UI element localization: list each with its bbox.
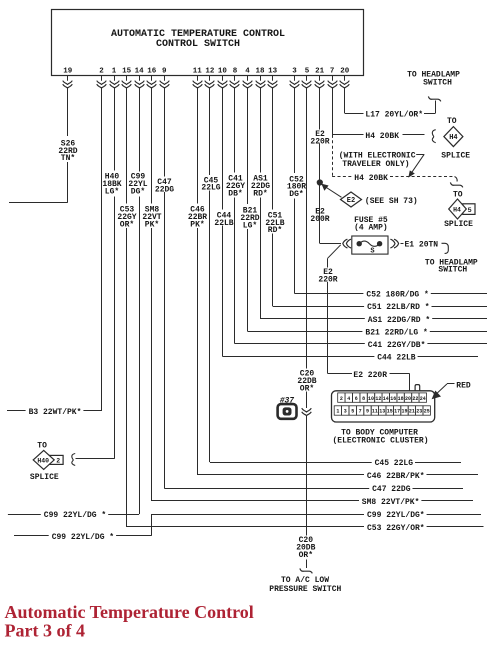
svg-text:AS1 22DG/RD *: AS1 22DG/RD * (368, 316, 430, 325)
svg-text:C41 22GY/DB*: C41 22GY/DB* (368, 341, 426, 350)
svg-text:C99 22YL/DG*: C99 22YL/DG* (367, 511, 425, 520)
svg-text:H4: H4 (453, 207, 461, 214)
svg-text:22: 22 (412, 396, 418, 402)
svg-text:7: 7 (330, 67, 335, 75)
svg-text:(4 AMP): (4 AMP) (354, 224, 388, 233)
svg-text:C99 22YL/DG *: C99 22YL/DG * (52, 533, 114, 542)
svg-text:C46 22BR/PK*: C46 22BR/PK* (367, 472, 425, 481)
svg-text:16: 16 (390, 396, 396, 402)
svg-text:LG*: LG* (243, 221, 257, 230)
svg-text:21: 21 (315, 67, 325, 75)
svg-text:C45 22LG: C45 22LG (375, 459, 414, 468)
svg-text:4: 4 (347, 396, 350, 402)
svg-text:C47 22DG: C47 22DG (372, 485, 411, 494)
svg-text:18: 18 (255, 67, 265, 75)
svg-text:1: 1 (112, 67, 117, 75)
svg-text:CONTROL SWITCH: CONTROL SWITCH (156, 39, 240, 50)
svg-text:C53 22GY/OR*: C53 22GY/OR* (367, 524, 425, 533)
svg-text:Part 3 of 4: Part 3 of 4 (5, 621, 85, 641)
svg-text:8: 8 (362, 396, 365, 402)
svg-text:5: 5 (351, 409, 354, 415)
svg-text:23: 23 (416, 409, 422, 415)
svg-text:19: 19 (401, 409, 407, 415)
svg-text:21: 21 (409, 409, 415, 415)
svg-text:RD*: RD* (268, 226, 282, 235)
svg-text:RD*: RD* (253, 189, 267, 198)
svg-text:PRESSURE SWITCH: PRESSURE SWITCH (269, 585, 341, 594)
svg-text:8: 8 (233, 67, 238, 75)
svg-text:24: 24 (420, 396, 426, 402)
svg-text:SPLICE: SPLICE (444, 220, 473, 229)
svg-text:Automatic Temperature Control: Automatic Temperature Control (5, 602, 254, 622)
svg-text:E1 20TN: E1 20TN (405, 240, 439, 249)
svg-text:13: 13 (268, 67, 278, 75)
svg-text:12: 12 (205, 67, 215, 75)
svg-text:17: 17 (394, 409, 400, 415)
svg-text:2: 2 (340, 396, 343, 402)
svg-text:11: 11 (193, 67, 203, 75)
svg-text:1: 1 (336, 409, 339, 415)
svg-text:9: 9 (366, 409, 369, 415)
svg-text:3: 3 (344, 409, 347, 415)
svg-text:13: 13 (379, 409, 385, 415)
svg-text:2: 2 (99, 67, 104, 75)
svg-text:12: 12 (375, 396, 381, 402)
svg-text:E2 220R: E2 220R (353, 371, 387, 380)
svg-text:(ELECTRONIC CLUSTER): (ELECTRONIC CLUSTER) (332, 437, 428, 446)
svg-text:H4 20BK: H4 20BK (354, 174, 388, 183)
svg-text:18: 18 (398, 396, 404, 402)
svg-text:(SEE SH 73): (SEE SH 73) (365, 197, 418, 206)
svg-text:SM8 22VT/PK*: SM8 22VT/PK* (362, 498, 420, 507)
svg-text:SPLICE: SPLICE (441, 151, 470, 160)
svg-text:C99 22YL/DG *: C99 22YL/DG * (44, 511, 106, 520)
svg-text:14: 14 (135, 67, 145, 75)
svg-text:3: 3 (292, 67, 297, 75)
svg-text:TO: TO (37, 441, 47, 450)
svg-text:OR*: OR* (299, 551, 313, 560)
svg-text:TN*: TN* (61, 154, 75, 163)
svg-text:9: 9 (162, 67, 167, 75)
svg-text:L17 20YL/OR*: L17 20YL/OR* (365, 111, 423, 120)
svg-text:11: 11 (372, 409, 378, 415)
svg-text:20: 20 (405, 396, 411, 402)
svg-text:H4 20BK: H4 20BK (365, 132, 399, 141)
svg-text:220R: 220R (318, 275, 337, 284)
svg-text:7: 7 (359, 409, 362, 415)
svg-text:H4: H4 (449, 134, 457, 142)
svg-text:TO A/C LOW: TO A/C LOW (281, 576, 329, 585)
svg-text:220R: 220R (310, 137, 329, 146)
svg-text:22LB: 22LB (214, 219, 233, 228)
svg-text:4: 4 (245, 67, 250, 75)
svg-text:C51 22LB/RD *: C51 22LB/RD * (367, 303, 429, 312)
svg-text:C52 180R/DG *: C52 180R/DG * (366, 291, 428, 300)
svg-text:25: 25 (424, 409, 430, 415)
svg-text:H40: H40 (37, 457, 49, 464)
svg-text:SWITCH: SWITCH (423, 79, 452, 88)
svg-text:14: 14 (383, 396, 389, 402)
svg-text:22LG: 22LG (201, 184, 220, 193)
svg-text:DG*: DG* (289, 190, 303, 199)
svg-text:10: 10 (218, 67, 228, 75)
svg-text:B3 22WT/PK*: B3 22WT/PK* (29, 408, 82, 417)
svg-text:S: S (370, 247, 374, 255)
svg-text:2: 2 (56, 458, 60, 465)
svg-text:5: 5 (468, 207, 472, 215)
svg-text:SPLICE: SPLICE (30, 473, 59, 482)
svg-text:LG*: LG* (105, 187, 119, 196)
svg-text:C44 22LB: C44 22LB (377, 354, 416, 363)
svg-text:TO: TO (447, 117, 457, 126)
svg-text:20: 20 (340, 67, 350, 75)
svg-text:15: 15 (387, 409, 393, 415)
svg-text:TO: TO (453, 191, 463, 200)
svg-text:200R: 200R (310, 215, 329, 224)
svg-text:DB*: DB* (228, 189, 242, 198)
svg-text:19: 19 (63, 67, 73, 75)
svg-text:5: 5 (305, 67, 310, 75)
svg-text:E2: E2 (347, 197, 355, 205)
svg-text:DG*: DG* (131, 187, 145, 196)
svg-text:SWITCH: SWITCH (438, 266, 467, 275)
svg-text:TRAVELER ONLY): TRAVELER ONLY) (342, 160, 409, 169)
svg-text:6: 6 (355, 396, 358, 402)
svg-text:10: 10 (368, 396, 374, 402)
svg-text:16: 16 (147, 67, 157, 75)
svg-text:B21 22RD/LG *: B21 22RD/LG * (365, 328, 427, 337)
svg-text:15: 15 (122, 67, 132, 75)
svg-text:RED: RED (456, 381, 471, 390)
